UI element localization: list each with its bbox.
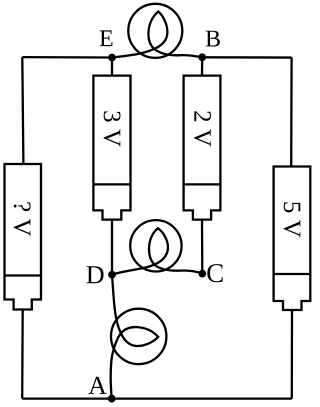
- wire: stub battery 2V bottom to node C: [201, 220, 204, 274]
- battery 2V value label "2 V": [194, 111, 211, 146]
- battery 3V outline: [93, 76, 130, 220]
- wire: top-left segment (corner to node E): [22, 56, 112, 59]
- battery 5V outline: [274, 167, 311, 311]
- wire: top-right segment (node B to corner): [202, 56, 291, 59]
- battery ?V value label "? V": [14, 202, 31, 236]
- battery 2V outline: [184, 76, 221, 220]
- node A junction dot: [108, 395, 116, 403]
- lamp E-B: filament loop wire (E to B): [112, 12, 202, 58]
- battery ?V separator line: [5, 274, 42, 276]
- lamp D-A: bulb circle: [111, 309, 166, 364]
- wire: right side (top corner down to battery 5V): [290, 58, 293, 167]
- battery 2V separator line: [184, 183, 221, 185]
- battery 3V separator line: [93, 183, 130, 185]
- node D junction dot: [108, 271, 116, 279]
- wire: stub node B to battery 2V top: [201, 57, 203, 75]
- node E junction dot: [108, 54, 116, 62]
- battery ?V outline: [5, 164, 42, 310]
- node C junction dot: [198, 270, 206, 278]
- wire: bottom (left corner to node A to right corner): [22, 397, 292, 399]
- node D label: [87, 266, 104, 283]
- wire: stub battery 3V bottom to node D: [111, 220, 113, 275]
- wire: stub node E to battery 3V top: [111, 58, 113, 76]
- node B junction dot: [198, 53, 206, 61]
- lamp D-C: filament loop wire (D to C): [112, 228, 202, 274]
- battery 3V value label "3 V": [104, 111, 121, 146]
- wire: left side (battery ?V to bottom corner): [21, 310, 24, 399]
- node C label: [207, 264, 222, 282]
- node E label: [100, 30, 113, 46]
- wire: left side (top corner down to battery ?V): [22, 57, 23, 164]
- lamp D-A: filament loop wire (D to A): [111, 275, 159, 399]
- node B label: [206, 31, 220, 47]
- wire: right side (battery 5V to bottom corner): [291, 310, 294, 399]
- battery 5V separator line: [274, 273, 311, 275]
- node A label: [88, 377, 106, 394]
- lamp E-B: bulb circle: [128, 4, 182, 58]
- lamp D-C: bulb circle: [130, 220, 181, 271]
- battery 5V value label "5 V": [284, 202, 301, 237]
